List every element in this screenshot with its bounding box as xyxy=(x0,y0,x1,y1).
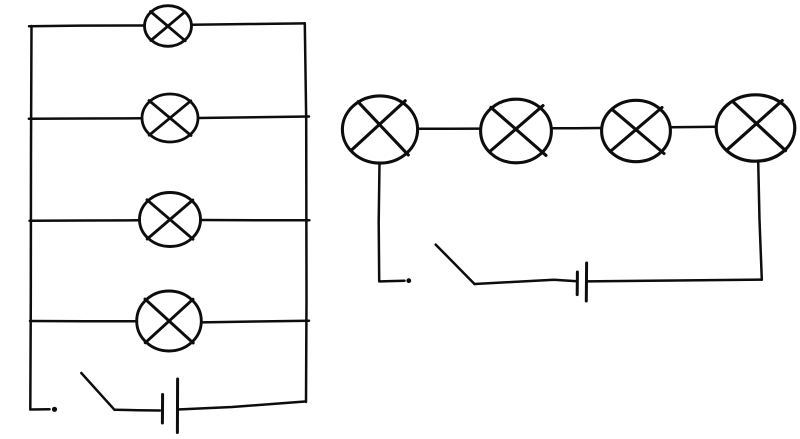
lamp L1 xyxy=(145,6,192,47)
wire L7 to L8 xyxy=(671,126,717,129)
wire bottom left tick xyxy=(379,280,404,283)
wire switch to battery right xyxy=(475,280,578,284)
switch S1 lever xyxy=(81,373,114,410)
wire row2 left xyxy=(29,117,142,120)
wire L5 down xyxy=(377,163,380,281)
wire switch to battery xyxy=(115,409,161,412)
lamp L5 xyxy=(342,96,417,163)
wire left rail bottom tick xyxy=(30,408,49,411)
node switch contact dot right xyxy=(406,278,411,283)
lamp L6 xyxy=(481,99,552,163)
battery B1 long plate xyxy=(176,379,179,433)
lamp L2 xyxy=(142,94,198,142)
wire row4 right xyxy=(201,321,309,323)
wire top row left xyxy=(29,24,145,27)
node switch contact dot xyxy=(52,407,57,412)
wire L6 to L7 xyxy=(551,127,601,130)
battery B1 short plate xyxy=(161,395,164,424)
wire top row right xyxy=(192,23,305,24)
lamp L7 xyxy=(602,100,671,161)
wire battery to right rail xyxy=(178,402,305,410)
lamp L4 xyxy=(137,291,202,351)
wire left rail xyxy=(30,26,31,410)
lamp L3 xyxy=(140,193,201,247)
wire L5 to L6 xyxy=(418,127,480,130)
switch S2 lever xyxy=(436,245,475,284)
battery B2 long plate xyxy=(585,263,588,301)
wire right rail xyxy=(305,23,307,402)
battery B2 short plate xyxy=(576,272,579,295)
wire row3 left xyxy=(30,219,140,222)
wire L8 down xyxy=(758,161,762,279)
wire row3 right xyxy=(201,219,310,222)
wire battery to right vertical xyxy=(587,280,762,282)
wire row4 left xyxy=(30,320,137,323)
wire row2 right xyxy=(198,117,309,119)
lamp L8 xyxy=(716,95,795,161)
